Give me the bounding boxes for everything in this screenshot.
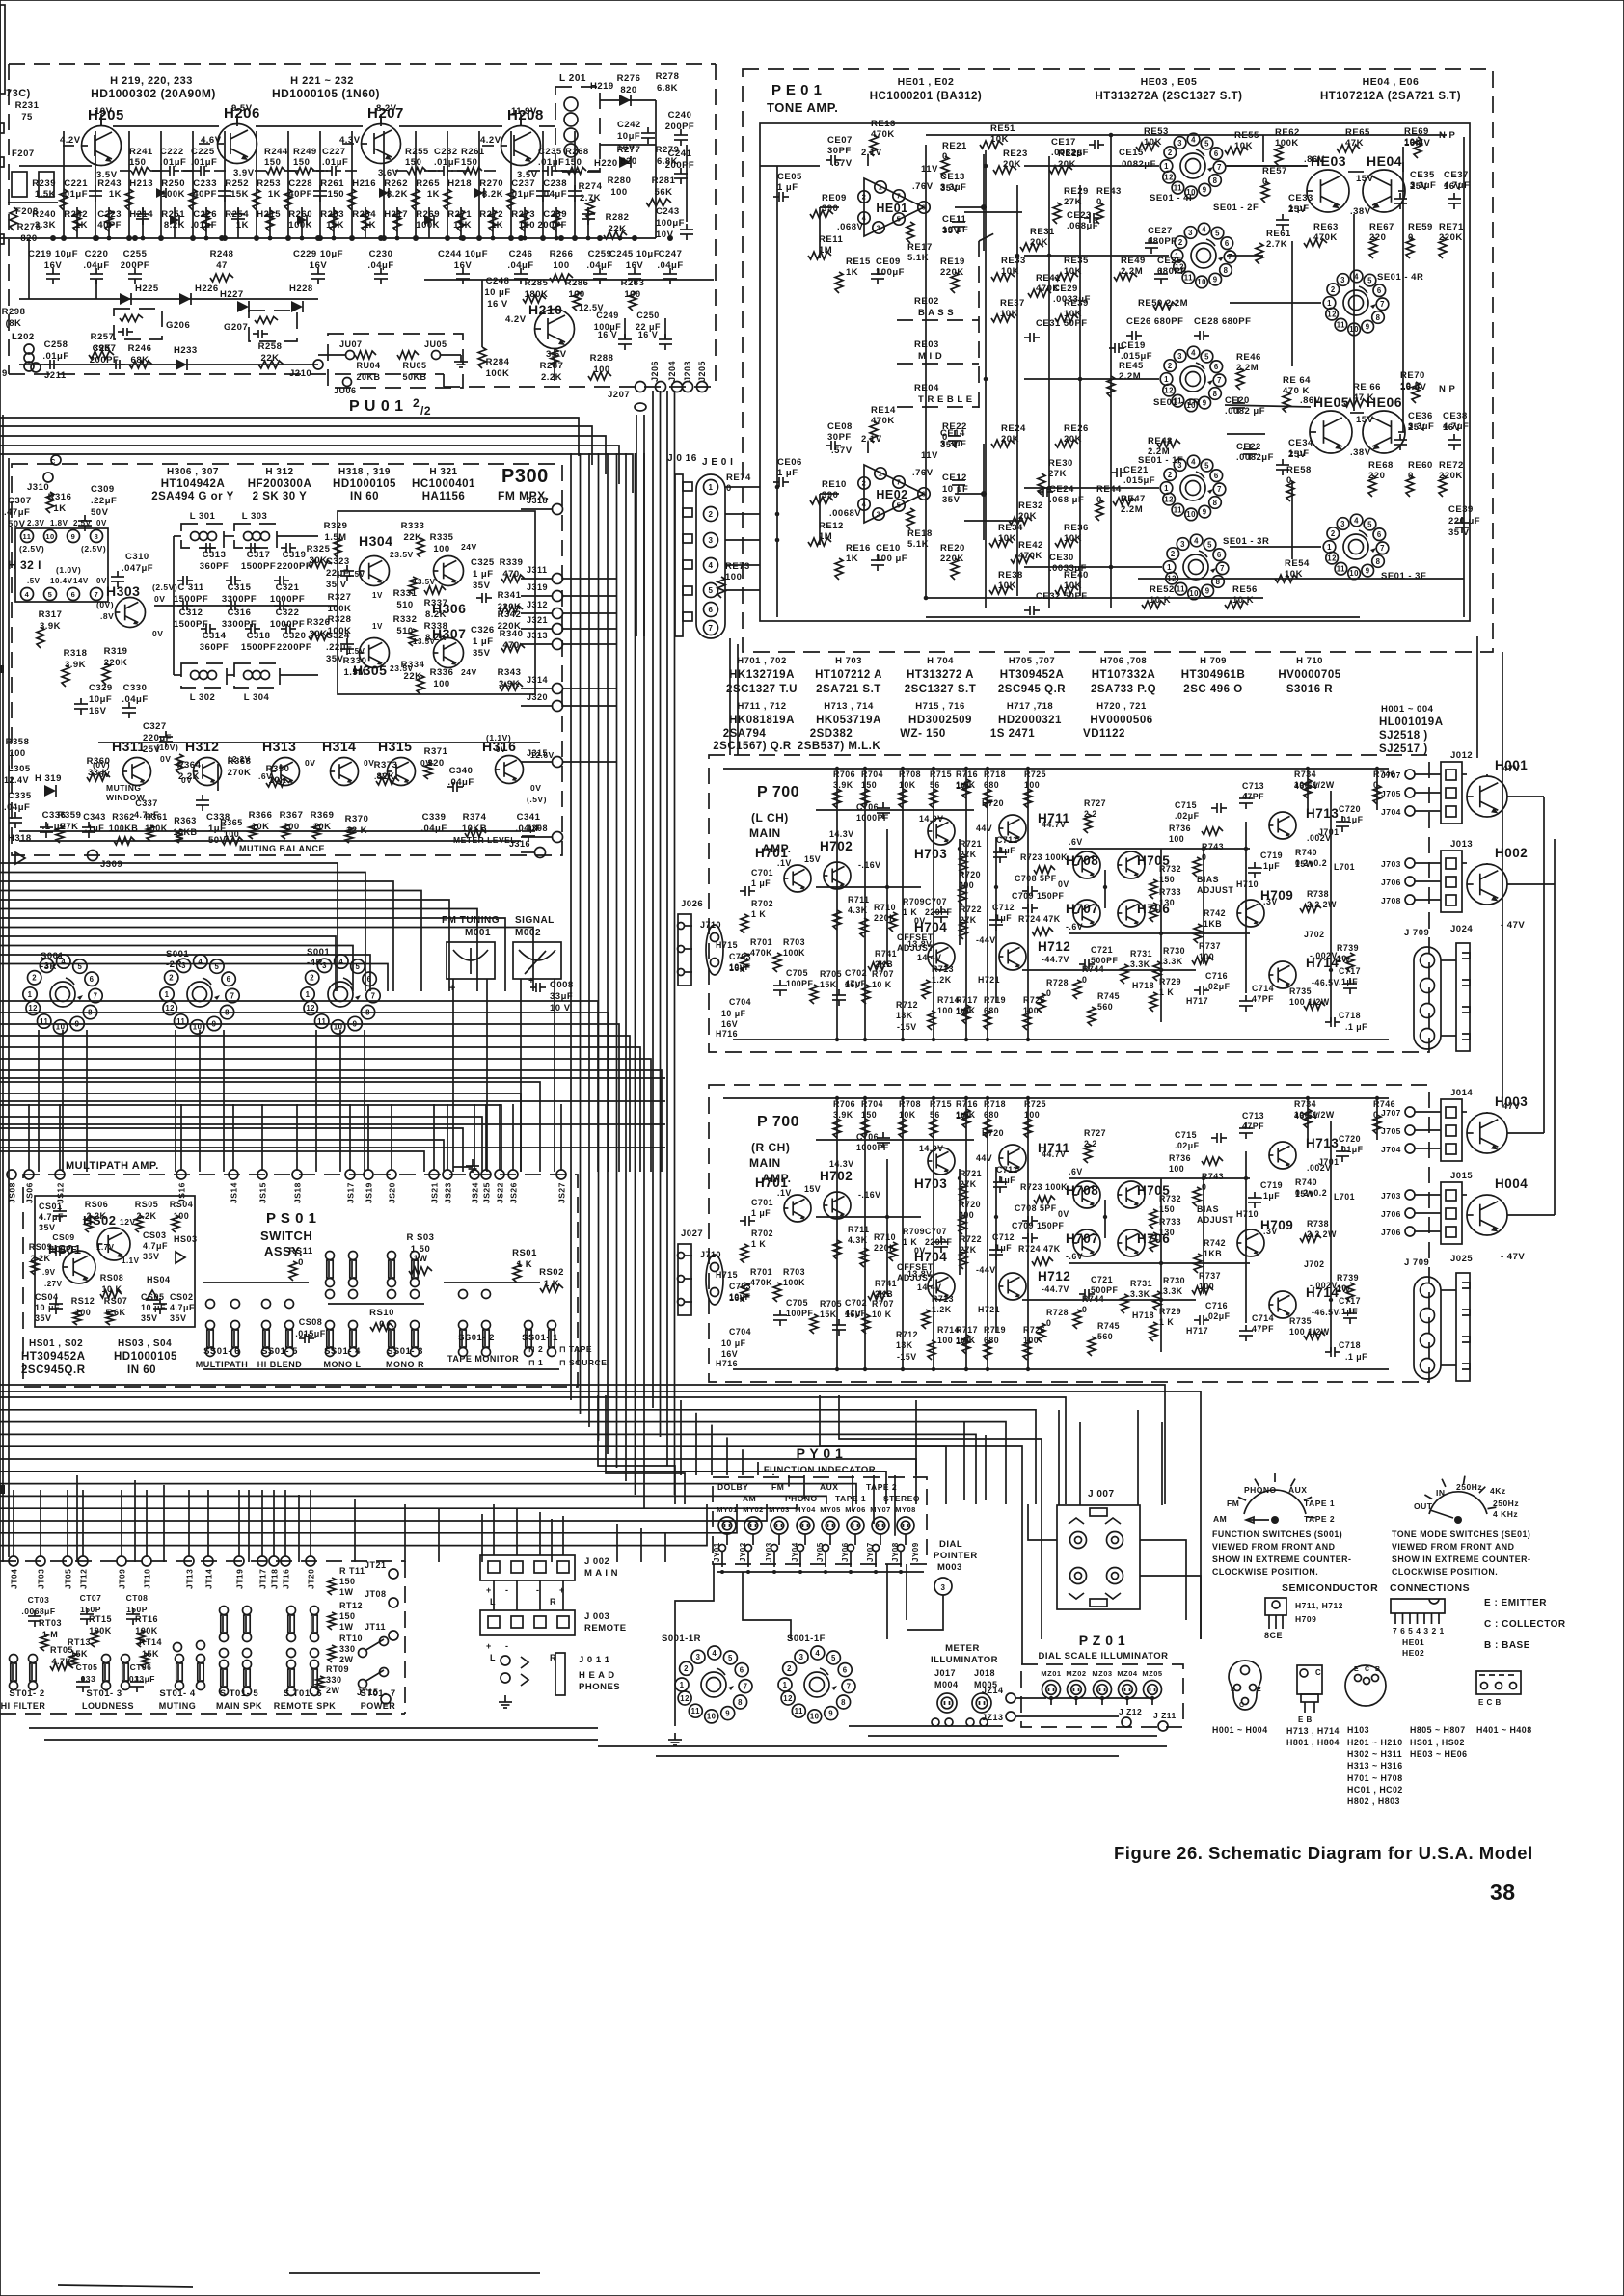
svg-text:12: 12	[1164, 386, 1174, 394]
wire drops to PY01 area	[680, 1400, 682, 1475]
svg-text:10: 10	[56, 1023, 66, 1032]
svg-text:6.8K: 6.8K	[657, 83, 678, 94]
inductor L303 dashed box	[234, 524, 277, 548]
svg-text:R250: R250	[161, 178, 185, 189]
svg-text:JZ14: JZ14	[982, 1686, 1004, 1695]
svg-text:R734: R734	[1294, 770, 1316, 779]
transistor H707 R	[1073, 1229, 1100, 1256]
svg-text:CLOCKWISE POSITION.: CLOCKWISE POSITION.	[1212, 1567, 1318, 1577]
svg-text:2.1V: 2.1V	[861, 148, 882, 158]
junction JS12	[55, 1170, 65, 1179]
svg-text:HS03: HS03	[174, 1234, 198, 1244]
svg-text:1V: 1V	[372, 591, 383, 600]
svg-text:R732: R732	[1159, 864, 1181, 874]
svg-text:C259: C259	[588, 249, 612, 259]
switch contacts SS01-4 upper	[326, 1252, 335, 1260]
svg-text:1: 1	[1164, 375, 1169, 384]
svg-text:R720: R720	[959, 1200, 981, 1209]
svg-text:-44.7V: -44.7V	[1042, 1284, 1069, 1294]
svg-text:STEREO: STEREO	[883, 1494, 920, 1503]
svg-text:8: 8	[95, 532, 99, 541]
svg-text:MZ03: MZ03	[1092, 1669, 1112, 1678]
svg-text:0V: 0V	[96, 519, 107, 527]
svg-text:100K: 100K	[1275, 138, 1299, 149]
svg-text:C228: C228	[288, 178, 312, 189]
svg-text:H712: H712	[1038, 939, 1070, 954]
svg-text:560: 560	[1097, 1332, 1113, 1341]
svg-text:R705: R705	[820, 1299, 842, 1309]
svg-text:C310: C310	[125, 552, 149, 562]
svg-text:CE30: CE30	[1049, 553, 1074, 563]
svg-text:C718: C718	[1339, 1340, 1361, 1350]
switch contacts ST01-2	[10, 1655, 18, 1663]
svg-text:1 μF: 1 μF	[473, 636, 494, 647]
svg-text:C705: C705	[786, 1298, 808, 1308]
svg-text:RT15: RT15	[89, 1614, 112, 1624]
svg-text:CS03: CS03	[143, 1230, 167, 1240]
svg-text:11: 11	[23, 532, 32, 541]
svg-text:MULTIPATH: MULTIPATH	[196, 1360, 249, 1369]
transistor H306	[434, 556, 464, 586]
svg-text:33μF: 33μF	[550, 991, 573, 1002]
svg-text:H304: H304	[359, 533, 392, 549]
switch contacts SS01-4	[326, 1321, 335, 1330]
svg-text:6: 6	[1214, 472, 1219, 480]
svg-text:16V: 16V	[89, 706, 107, 716]
svg-text:1000PF: 1000PF	[270, 594, 305, 605]
svg-text:2: 2	[32, 974, 37, 983]
svg-text:8: 8	[841, 1698, 846, 1707]
svg-text:RT16: RT16	[135, 1614, 158, 1624]
svg-text:RE43: RE43	[1096, 186, 1122, 197]
svg-text:10: 10	[1189, 589, 1199, 598]
svg-text:680: 680	[984, 1110, 999, 1120]
svg-text:H720: H720	[982, 1128, 1004, 1138]
svg-text:C705: C705	[786, 968, 808, 978]
junction JZ13	[1006, 1712, 1015, 1721]
svg-text:M I D: M I D	[918, 351, 942, 362]
diode H220	[619, 156, 631, 168]
svg-text:RE34: RE34	[998, 523, 1023, 533]
svg-text:3: 3	[1180, 540, 1185, 549]
svg-text:C719: C719	[1260, 1180, 1283, 1190]
svg-text:.86V: .86V	[1304, 154, 1325, 165]
transistor H706 L	[1118, 900, 1145, 927]
transistor H307	[434, 638, 464, 668]
svg-text:.02μF: .02μF	[1175, 811, 1200, 821]
svg-text:C703: C703	[729, 952, 751, 961]
switch contacts ST01-6	[287, 1661, 296, 1669]
svg-text:H713: H713	[1306, 806, 1339, 821]
svg-text:3: 3	[696, 1653, 701, 1661]
svg-text:4: 4	[862, 500, 867, 509]
svg-text:2.7K: 2.7K	[1266, 239, 1287, 250]
switch contacts SS01-1	[525, 1321, 533, 1330]
svg-text:-.002V: -.002V	[1310, 1281, 1338, 1290]
svg-text:5: 5	[1367, 520, 1372, 528]
svg-text:C008: C008	[550, 980, 574, 990]
svg-text:TONE AMP.: TONE AMP.	[767, 100, 838, 115]
junction J706	[1405, 1208, 1415, 1218]
svg-text:2: 2	[862, 479, 867, 488]
svg-text:1 K: 1 K	[751, 1239, 766, 1249]
svg-text:J 003: J 003	[584, 1611, 609, 1622]
wire h links	[28, 238, 30, 299]
svg-text:5: 5	[1204, 352, 1209, 361]
svg-text:R251: R251	[161, 209, 185, 220]
svg-text:12: 12	[306, 1004, 315, 1013]
svg-text:RS05: RS05	[135, 1200, 159, 1209]
svg-text:SWITCH: SWITCH	[260, 1229, 312, 1243]
svg-text:3: 3	[1188, 229, 1193, 237]
svg-text:J205: J205	[697, 361, 707, 382]
svg-text:H002: H002	[1495, 846, 1528, 860]
svg-text:TAPE 1: TAPE 1	[1304, 1499, 1335, 1508]
junction JZ12	[1122, 1717, 1131, 1727]
svg-text:HS01: HS01	[48, 1242, 82, 1256]
rotary switch SE01-1R	[1180, 366, 1205, 392]
svg-text:100PF: 100PF	[786, 1309, 814, 1318]
svg-text:.1 μF: .1 μF	[1345, 1022, 1367, 1032]
svg-text:DOLBY: DOLBY	[717, 1482, 748, 1492]
svg-text:JT04: JT04	[10, 1569, 19, 1589]
svg-text:.57V: .57V	[831, 158, 853, 169]
svg-text:J 709: J 709	[1404, 928, 1429, 938]
svg-text:J314: J314	[527, 675, 548, 685]
svg-text:JS22: JS22	[496, 1182, 505, 1203]
svg-text:L202: L202	[12, 332, 35, 342]
svg-text:1 μF: 1 μF	[777, 468, 798, 478]
wire P700 R mesh	[995, 1167, 997, 1333]
svg-text:TAPE 1: TAPE 1	[835, 1494, 866, 1503]
junction J704	[1405, 1144, 1415, 1153]
svg-text:HE01: HE01	[876, 202, 907, 215]
svg-text:R727: R727	[1084, 798, 1106, 808]
svg-text:1K: 1K	[364, 220, 376, 230]
svg-text:C702: C702	[845, 1298, 867, 1308]
transistor H714 R	[1269, 1291, 1296, 1318]
svg-text:J017: J017	[934, 1668, 956, 1678]
svg-text:JT18: JT18	[270, 1569, 280, 1589]
transistor H316	[496, 756, 524, 784]
svg-text:.015μF: .015μF	[295, 1329, 326, 1338]
svg-text:-: -	[505, 1585, 509, 1595]
svg-text:1K: 1K	[236, 220, 249, 230]
svg-text:4: 4	[815, 1649, 820, 1658]
svg-text:8: 8	[738, 1698, 743, 1707]
transistor H701 R	[784, 1195, 811, 1222]
transistor HE05	[1310, 411, 1352, 453]
junction J704	[1405, 806, 1415, 816]
svg-text:8: 8	[365, 1008, 370, 1016]
svg-text:3: 3	[799, 1653, 804, 1661]
junction JT15	[381, 1694, 391, 1704]
svg-text:R724 47K: R724 47K	[1018, 1244, 1061, 1254]
wire PY01 bottom rail	[717, 1571, 924, 1573]
svg-text:R711: R711	[848, 895, 870, 905]
transistor HE06	[1363, 411, 1405, 453]
junction JS25	[481, 1170, 491, 1179]
svg-text:3: 3	[941, 1583, 946, 1592]
potentiometer RU05	[397, 351, 419, 359]
svg-text:R254: R254	[225, 209, 249, 220]
svg-text:15K: 15K	[453, 220, 472, 230]
svg-text:CE08: CE08	[827, 421, 853, 432]
svg-text:R709: R709	[903, 1227, 925, 1236]
svg-text:B: B	[1375, 1666, 1381, 1673]
svg-text:H E A D: H E A D	[579, 1670, 615, 1681]
svg-text:12: 12	[1164, 173, 1174, 181]
wire bus C	[0, 1001, 598, 1172]
svg-text:AUX: AUX	[820, 1482, 838, 1492]
svg-text:35V: 35V	[39, 1223, 56, 1232]
svg-text:J014: J014	[1450, 1088, 1473, 1098]
svg-text:10μF: 10μF	[89, 694, 112, 705]
svg-text:R: R	[550, 1597, 556, 1607]
svg-text:8.2K: 8.2K	[387, 189, 408, 200]
junction J318	[553, 504, 563, 515]
svg-text:150: 150	[861, 1110, 877, 1120]
svg-text:56: 56	[930, 1110, 940, 1120]
svg-text:11.9V: 11.9V	[511, 106, 537, 117]
svg-text:100: 100	[937, 1336, 953, 1345]
page edge tick	[0, 1485, 5, 1494]
svg-text:(1.0V): (1.0V)	[56, 565, 81, 575]
svg-text:4.7μF: 4.7μF	[143, 1241, 168, 1251]
svg-text:4: 4	[25, 590, 30, 599]
wire P700 L mesh	[995, 837, 997, 1003]
svg-text:C702: C702	[845, 968, 867, 978]
svg-text:1S 2471: 1S 2471	[990, 728, 1035, 740]
svg-text:C227: C227	[322, 147, 346, 157]
wire H210 area	[481, 280, 483, 347]
svg-text:CE28 680PF: CE28 680PF	[1194, 316, 1251, 327]
svg-text:R733: R733	[1159, 887, 1181, 897]
svg-text:POINTER: POINTER	[934, 1551, 978, 1561]
svg-text:220K: 220K	[498, 621, 522, 632]
svg-text:30PF: 30PF	[827, 146, 852, 156]
svg-text:H315: H315	[378, 739, 412, 754]
svg-text:L 302: L 302	[190, 692, 216, 703]
svg-text:E : EMITTER: E : EMITTER	[1484, 1598, 1547, 1608]
svg-text:360PF: 360PF	[200, 561, 230, 572]
svg-text:10 μF: 10 μF	[484, 287, 510, 298]
package TO-92	[1265, 1598, 1286, 1615]
svg-text:R362: R362	[112, 812, 135, 822]
svg-text:15W: 15W	[1295, 859, 1314, 869]
svg-text:.1μF: .1μF	[1339, 977, 1358, 986]
svg-text:CE21: CE21	[1123, 465, 1149, 475]
switch ST01-7 power	[359, 1649, 367, 1658]
svg-text:C714: C714	[1252, 1313, 1274, 1323]
junction JU07	[346, 351, 355, 360]
svg-text:.5V: .5V	[27, 577, 41, 585]
svg-text:R334: R334	[401, 660, 425, 670]
PU01 block dashed border	[9, 63, 716, 65]
svg-text:R730: R730	[1163, 1276, 1185, 1285]
svg-text:.068V: .068V	[837, 222, 863, 232]
wire L out	[1441, 959, 1456, 961]
svg-text:R359: R359	[58, 810, 82, 821]
svg-text:HL001019A: HL001019A	[1379, 716, 1444, 728]
svg-text:R248: R248	[210, 249, 234, 259]
svg-text:5: 5	[1215, 229, 1220, 237]
svg-text:.068 μF: .068 μF	[1049, 495, 1084, 505]
svg-text:C229 10μF: C229 10μF	[293, 249, 343, 259]
svg-text:.1μF: .1μF	[992, 913, 1012, 923]
svg-text:RE11: RE11	[819, 234, 843, 245]
svg-text:12: 12	[165, 1004, 175, 1013]
svg-text:(R CH): (R CH)	[751, 1141, 790, 1154]
svg-text:HT309452A: HT309452A	[21, 1351, 86, 1363]
svg-text:R339: R339	[500, 557, 524, 568]
svg-text:H802 , H803: H802 , H803	[1347, 1796, 1400, 1806]
junction JS16	[176, 1170, 186, 1179]
svg-text:J210: J210	[289, 368, 311, 379]
P700 L block dashed border	[709, 755, 1429, 1052]
svg-text:MY02: MY02	[743, 1505, 764, 1514]
transistor H304	[360, 556, 390, 586]
svg-text:6: 6	[709, 606, 714, 614]
svg-text:6: 6	[1225, 239, 1230, 248]
svg-text:0V: 0V	[152, 629, 163, 638]
svg-text:5: 5	[897, 215, 902, 224]
svg-text:H703: H703	[914, 847, 947, 861]
svg-text:R231: R231	[15, 100, 40, 111]
svg-text:.04μF: .04μF	[541, 189, 567, 200]
diode H228	[291, 301, 303, 312]
svg-text:9: 9	[725, 1709, 730, 1717]
svg-text:25V: 25V	[1288, 204, 1307, 215]
ground headphone	[504, 1695, 506, 1702]
svg-text:RE16: RE16	[846, 543, 871, 554]
wire L201	[600, 99, 656, 101]
black page edge bar	[0, 5, 5, 94]
svg-text:5: 5	[1367, 276, 1372, 284]
svg-text:RS10: RS10	[369, 1308, 394, 1318]
svg-text:1: 1	[1164, 484, 1169, 493]
svg-text:16V: 16V	[729, 1293, 745, 1303]
svg-text:6: 6	[90, 975, 95, 984]
svg-text:1V: 1V	[372, 622, 383, 631]
svg-text:35V: 35V	[473, 581, 491, 591]
stray mark bottom	[289, 2272, 540, 2274]
svg-text:RE35: RE35	[1064, 256, 1089, 266]
transistor H708 L	[1073, 851, 1100, 878]
transistor H206	[218, 124, 257, 164]
svg-text:11: 11	[40, 1017, 48, 1026]
svg-text:SS01- 1: SS01- 1	[522, 1333, 558, 1343]
power transistor H002	[1467, 864, 1507, 905]
svg-text:7: 7	[94, 991, 98, 1000]
svg-text:CE11: CE11	[942, 214, 966, 225]
svg-text:.6V: .6V	[1069, 837, 1083, 847]
svg-text:6: 6	[740, 1665, 744, 1674]
diode H226	[179, 293, 191, 305]
svg-text:H 710: H 710	[1296, 656, 1323, 666]
svg-text:H709: H709	[1295, 1614, 1316, 1624]
svg-text:5: 5	[1207, 540, 1212, 549]
svg-text:JT03: JT03	[37, 1569, 46, 1589]
svg-text:C307: C307	[8, 496, 32, 506]
svg-text:.01μF: .01μF	[191, 220, 217, 230]
svg-text:MONO R: MONO R	[386, 1360, 424, 1369]
svg-text:R243: R243	[97, 178, 122, 189]
svg-text:44V: 44V	[976, 1153, 992, 1163]
svg-text:H311: H311	[112, 739, 146, 754]
svg-text:100: 100	[937, 1006, 953, 1015]
svg-text:H701 , 702: H701 , 702	[737, 656, 786, 666]
svg-text:100K: 100K	[783, 1278, 805, 1287]
svg-text:R735: R735	[1289, 986, 1312, 996]
svg-text:H720 , 721: H720 , 721	[1096, 701, 1147, 712]
svg-text:12.2V: 12.2V	[228, 755, 251, 764]
svg-text:100K: 100K	[328, 626, 352, 636]
svg-text:.3V: .3V	[1263, 897, 1278, 906]
svg-text:J706: J706	[1381, 1228, 1401, 1237]
svg-text:150: 150	[328, 189, 344, 200]
svg-text:3300PF: 3300PF	[222, 594, 257, 605]
transistor H704 L	[928, 943, 955, 970]
svg-text:RU05: RU05	[402, 361, 426, 370]
svg-text:9.5V: 9.5V	[231, 103, 253, 114]
svg-text:1500PF: 1500PF	[174, 594, 208, 605]
svg-text:P300: P300	[501, 466, 549, 487]
svg-text:3: 3	[877, 510, 881, 519]
svg-text:8: 8	[1376, 557, 1381, 566]
svg-text:10: 10	[334, 1023, 343, 1032]
svg-text:JU05: JU05	[424, 339, 447, 349]
svg-text:-.6V: -.6V	[1066, 922, 1083, 932]
svg-text:R709: R709	[903, 897, 925, 906]
svg-text:11: 11	[1177, 585, 1185, 594]
svg-text:RE13: RE13	[871, 119, 896, 129]
svg-text:ST01- 4: ST01- 4	[159, 1688, 196, 1699]
svg-text:J702: J702	[1304, 1259, 1325, 1269]
svg-text:J027: J027	[681, 1229, 703, 1239]
PY01 block dashed border	[713, 1477, 927, 1564]
svg-text:9: 9	[1213, 275, 1218, 284]
svg-text:10: 10	[1349, 569, 1359, 578]
svg-text:13.8V: 13.8V	[907, 939, 933, 949]
svg-text:24V: 24V	[461, 542, 477, 552]
svg-text:10K: 10K	[899, 1110, 916, 1120]
svg-text:L305: L305	[8, 764, 31, 774]
svg-text:C243: C243	[656, 206, 680, 217]
svg-text:R702: R702	[751, 1229, 773, 1238]
junction JT03	[36, 1556, 45, 1566]
svg-text:L701: L701	[1334, 862, 1355, 872]
svg-text:510: 510	[396, 626, 413, 636]
svg-text:C: C	[1315, 1668, 1321, 1677]
svg-text:BIAS: BIAS	[1197, 875, 1219, 884]
svg-text:HE02: HE02	[1402, 1648, 1424, 1658]
svg-text:CS02: CS02	[170, 1292, 194, 1302]
wire ps01 internals	[203, 1282, 309, 1283]
svg-text:35V: 35V	[326, 654, 344, 664]
svg-text:-: -	[505, 1641, 509, 1651]
svg-text:S001: S001	[41, 951, 64, 961]
junction J308	[553, 832, 563, 843]
svg-text:10 μF: 10 μF	[721, 1009, 746, 1018]
svg-text:CE27: CE27	[1148, 226, 1173, 236]
svg-text:FM: FM	[1227, 1499, 1239, 1508]
svg-text:R711: R711	[848, 1225, 870, 1234]
svg-text:2200PF: 2200PF	[277, 642, 311, 653]
svg-text:1: 1	[1164, 162, 1169, 171]
svg-text:C225: C225	[191, 147, 215, 157]
svg-text:H715: H715	[716, 1270, 738, 1280]
